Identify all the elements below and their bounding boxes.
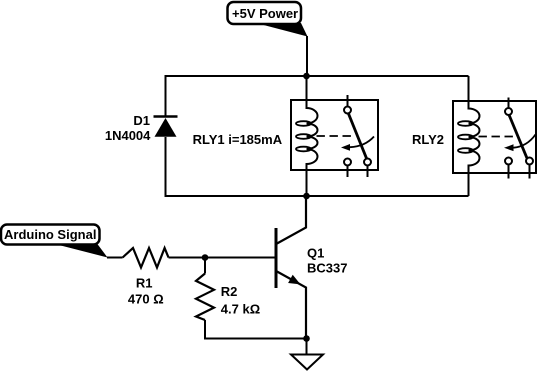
svg-text:RLY1 i=185mA: RLY1 i=185mA bbox=[193, 132, 283, 147]
svg-text:BC337: BC337 bbox=[307, 261, 347, 276]
svg-text:+5V Power: +5V Power bbox=[232, 6, 298, 21]
svg-text:RLY2: RLY2 bbox=[412, 132, 444, 147]
svg-text:Arduino Signal: Arduino Signal bbox=[4, 227, 96, 242]
svg-text:4.7 kΩ: 4.7 kΩ bbox=[221, 302, 260, 317]
svg-text:D1: D1 bbox=[133, 113, 150, 128]
svg-text:1N4004: 1N4004 bbox=[105, 128, 151, 143]
svg-text:Q1: Q1 bbox=[307, 246, 324, 261]
svg-text:R2: R2 bbox=[221, 284, 238, 299]
svg-text:470 Ω: 470 Ω bbox=[128, 292, 164, 307]
svg-text:R1: R1 bbox=[136, 275, 153, 290]
